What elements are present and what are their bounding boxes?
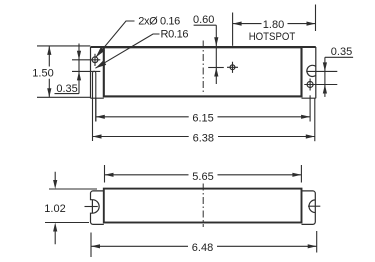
- dim 6.48 right extension line: [316, 231, 318, 253]
- svg-text:HOTSPOT: HOTSPOT: [249, 31, 296, 43]
- dim 0.35 left dimension line: [78, 44, 80, 94]
- svg-text:6.38: 6.38: [193, 133, 214, 145]
- dim 1.80 arrows: [233, 22, 316, 26]
- leader arrowhead 2xO 0.16: [96, 47, 105, 57]
- leader line for R0.16: [95, 34, 159, 68]
- right mounting hole: [307, 82, 313, 88]
- dim 0.35 left arrows: [77, 51, 81, 81]
- left hole horizontal centerline / 0.35 tick: [72, 59, 100, 61]
- dim 6.38 right extension line: [314, 98, 316, 141]
- dim 1.50 top extension line: [37, 45, 90, 47]
- dim 1.02 top extension line: [49, 188, 97, 190]
- bottom view left notch centerline: [85, 206, 98, 208]
- bottom view vertical centerline (dash-dot): [202, 184, 204, 228]
- dim 1.50 dimension line: [48, 46, 50, 97]
- dim 0.60 arrows: [214, 37, 218, 76]
- dim 0.35 left text underline: [55, 93, 80, 95]
- dim 5.65 arrows: [105, 173, 302, 177]
- bottom view body rectangle: [104, 189, 302, 223]
- dim 5.65 dimension line: [105, 174, 302, 176]
- dim 1.02 dimension lines: [54, 172, 56, 245]
- svg-text:0.35: 0.35: [331, 46, 352, 58]
- svg-text:1.50: 1.50: [32, 67, 53, 79]
- leader line for 2xO 0.16: [96, 21, 135, 57]
- bottom view right end plate with keyhole notch: [302, 191, 316, 225]
- svg-text:0.60: 0.60: [193, 14, 214, 26]
- hotspot marker cross: [227, 62, 238, 73]
- dim 1.80 dimension line: [233, 23, 316, 25]
- top view outer outline top edge: [91, 46, 316, 48]
- svg-text:R0.16: R0.16: [161, 28, 189, 40]
- svg-text:6.48: 6.48: [192, 242, 213, 254]
- dim 6.38 arrows: [93, 134, 315, 138]
- dim 6.48 dimension line: [91, 245, 317, 247]
- dim 0.60 text underline: [194, 24, 217, 26]
- dim 0.35 right dimension line: [324, 57, 326, 97]
- bottom view left end plate with keyhole notch: [91, 191, 104, 225]
- top view right end plate: [302, 47, 316, 98]
- dim 6.15 left extension line: [95, 98, 97, 121]
- svg-text:0.35: 0.35: [56, 83, 77, 95]
- dim 6.48 left extension line: [90, 233, 92, 258]
- dim 6.38 dimension line: [93, 136, 315, 138]
- top view left slot lines: [93, 73, 96, 141]
- dim 1.02 arrows: [53, 180, 57, 232]
- left mounting hole: [92, 57, 98, 63]
- right hole vertical centerline: [309, 79, 311, 91]
- svg-text:1.02: 1.02: [44, 203, 65, 215]
- dim 6.48 arrows: [91, 244, 317, 248]
- bottom view right notch centerline: [308, 205, 320, 207]
- svg-text:6.15: 6.15: [192, 113, 213, 125]
- top view left end plate: [91, 47, 104, 98]
- leader arrowhead R0.16: [95, 60, 106, 68]
- dim 0.60 dimension line: [215, 25, 217, 84]
- right hole horizontal centerline / 0.35 tick: [304, 84, 337, 86]
- left hole vertical centerline: [94, 54, 96, 66]
- svg-text:2xØ 0.16: 2xØ 0.16: [138, 16, 180, 28]
- dim 6.15 right extension line: [309, 95, 311, 121]
- dim 1.80 right extension line: [315, 5, 317, 32]
- top view vertical centerline (dash-dot): [202, 41, 204, 95]
- dim 5.65 right extension line: [300, 165, 302, 183]
- dim 6.15 arrows: [96, 115, 310, 119]
- 0.60 extension tick at hotspot level: [208, 67, 224, 69]
- left slot horizontal centerline / 0.35 tick: [72, 70, 100, 72]
- right notch horizontal centerline / 0.35 tick: [306, 70, 337, 72]
- dim 6.15 dimension line: [96, 116, 310, 118]
- dim 1.50 bottom extension line: [37, 96, 90, 98]
- hotspot marker circle: [230, 65, 235, 70]
- dim 5.65 left extension line: [104, 165, 106, 183]
- svg-text:1.80: 1.80: [263, 19, 284, 31]
- dim 1.80 left extension line: [232, 13, 234, 46]
- top view body rectangle: [104, 47, 302, 96]
- top view left slot arc R0.16: [93, 71, 96, 73]
- top view right notch R0.16 arc: [307, 65, 316, 76]
- dim 1.50 arrows: [47, 46, 51, 97]
- dim 0.35 right text underline: [325, 56, 353, 58]
- dim 1.02 bottom extension line: [45, 222, 89, 224]
- svg-text:5.65: 5.65: [192, 171, 213, 183]
- dim 0.35 right arrows: [323, 62, 327, 93]
